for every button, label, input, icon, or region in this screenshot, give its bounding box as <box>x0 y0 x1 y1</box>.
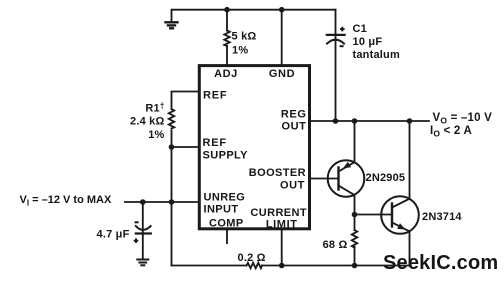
capacitor 4.7uF wire upper <box>142 202 144 234</box>
wire R1 to junction <box>171 131 173 148</box>
node junction input/cap <box>140 199 146 205</box>
svg-text:INPUT: INPUT <box>204 203 239 215</box>
svg-text:1%: 1% <box>148 129 164 141</box>
svg-text:IO < 2 A: IO < 2 A <box>430 125 472 139</box>
wire Q1 base (BOOSTER OUT) <box>310 178 339 180</box>
wire bottom rail right of 0.2 ohm <box>262 265 410 267</box>
polarity - of 4.7uF <box>135 221 139 223</box>
ground (below 4.7uF) <box>137 260 148 266</box>
node junction bottom rail / 68 ohm <box>352 263 358 269</box>
node junction output/C1 <box>333 118 339 124</box>
wire ADJ pin lower <box>226 46 228 65</box>
svg-text:OUT: OUT <box>280 180 305 192</box>
resistor 0.2 Ohm <box>247 263 263 268</box>
wire left vertical to input line <box>171 147 173 202</box>
wire junction to 68 ohm <box>354 215 356 231</box>
svg-text:CURRENT: CURRENT <box>250 207 307 219</box>
svg-text:tantalum: tantalum <box>353 49 400 61</box>
wire bottom rail left of 0.2 ohm <box>172 265 247 267</box>
capacitor 4.7uF wire lower <box>142 234 144 259</box>
wire ADJ pin upper <box>226 10 228 31</box>
resistor R1 2.4k <box>169 109 174 129</box>
svg-text:VI = –12 V to MAX: VI = –12 V to MAX <box>20 194 112 208</box>
wire left vertical to bottom rail <box>171 202 173 266</box>
resistor 5 kOhm <box>224 31 229 46</box>
wire Q1 collector vertical <box>354 195 356 215</box>
wire REF SUPPLY pin <box>172 146 199 148</box>
svg-text:4.7 μF: 4.7 μF <box>97 229 130 241</box>
svg-text:R1†: R1† <box>145 101 164 114</box>
node junction output/Q2 collector <box>407 118 413 124</box>
wire Q2 base <box>355 214 393 216</box>
svg-text:OUT: OUT <box>281 121 306 133</box>
transistor Q2 2N3714 <box>381 196 419 234</box>
node junction top (GND branch) <box>279 7 285 13</box>
svg-text:10 μF: 10 μF <box>353 36 383 48</box>
wire REF pin <box>172 92 199 110</box>
svg-text:5 kΩ: 5 kΩ <box>232 31 257 43</box>
resistor 68 Ohm <box>352 230 357 247</box>
svg-text:LIMIT: LIMIT <box>266 218 298 230</box>
wire CURRENT LIMIT pin down <box>281 229 283 265</box>
polarity + of C1 <box>340 27 345 32</box>
svg-text:2N2905: 2N2905 <box>366 172 406 184</box>
svg-text:GND: GND <box>269 68 295 80</box>
capacitor C1 <box>327 34 345 36</box>
svg-text:REF: REF <box>203 90 227 102</box>
svg-text:REG: REG <box>281 109 307 121</box>
node junction top (ADJ branch) <box>224 7 230 13</box>
svg-text:REF: REF <box>203 137 227 149</box>
wire Q1 emitter vertical <box>354 121 356 162</box>
wire Q2 emitter vertical <box>409 231 411 265</box>
node junction REF SUPPLY <box>169 144 175 150</box>
svg-text:VO = –10 V: VO = –10 V <box>433 112 493 126</box>
svg-text:SeekIC.com: SeekIC.com <box>383 252 498 274</box>
wire top rail <box>172 10 336 22</box>
svg-text:UNREG: UNREG <box>204 192 246 204</box>
svg-text:BOOSTER: BOOSTER <box>249 167 306 179</box>
svg-text:1%: 1% <box>232 45 248 57</box>
node junction input/R1 <box>169 199 175 205</box>
node junction Q1 collector / Q2 base <box>352 212 358 218</box>
svg-text:C1: C1 <box>353 23 367 35</box>
wire COMP stub <box>226 229 228 243</box>
node junction bottom rail / current limit <box>279 263 285 269</box>
svg-text:68 Ω: 68 Ω <box>323 239 348 251</box>
capacitor C1 wire lower <box>335 35 337 121</box>
transistor Q1 2N2905 <box>328 160 365 197</box>
svg-text:2.4 kΩ: 2.4 kΩ <box>130 116 165 128</box>
polarity + of 4.7uF <box>134 238 139 243</box>
wire GND pin <box>281 10 283 65</box>
wire input line <box>125 201 199 203</box>
capacitor C1 wire upper <box>335 10 337 35</box>
svg-text:COMP: COMP <box>209 218 244 230</box>
wire REG OUT output line <box>310 120 429 122</box>
node junction output/Q1 emitter <box>352 118 358 124</box>
svg-text:2N3714: 2N3714 <box>422 211 462 223</box>
ground (top left) <box>166 22 178 28</box>
svg-text:0.2 Ω: 0.2 Ω <box>238 252 266 264</box>
svg-text:ADJ: ADJ <box>214 68 238 80</box>
op-amp U1 regulator body <box>199 66 309 229</box>
wire Q2 collector vertical <box>409 121 411 199</box>
capacitor 4.7uF <box>136 226 151 230</box>
svg-text:SUPPLY: SUPPLY <box>203 150 249 162</box>
polarity - of C1 <box>340 45 344 47</box>
wire 68 ohm to bottom rail <box>354 247 356 266</box>
